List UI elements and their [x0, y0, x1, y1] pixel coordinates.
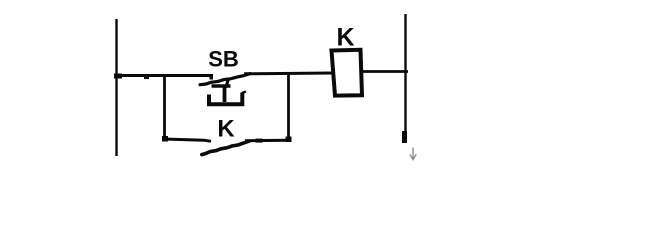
contact K movable (slant): [202, 141, 249, 154]
coil K rectangle: [332, 50, 363, 96]
node: junction blob at left rail: [114, 74, 122, 79]
node: branch bottom-right corner blob: [286, 137, 292, 143]
wire: left power rail: [115, 19, 117, 156]
wire: coil to right rail: [361, 70, 408, 73]
arrow: small gray down-arrow: [410, 148, 416, 160]
svg-text:K: K: [336, 24, 354, 52]
pushbutton SB actuator stem upper: [226, 80, 228, 88]
node: branch bottom-left corner blob: [162, 136, 168, 142]
node: ink tick under main line: [144, 75, 149, 79]
node: ink blob on branch bottom right wire: [256, 139, 263, 143]
pushbutton SB button cap bar: [212, 84, 231, 88]
pushbutton SB cup right-wall serif: [242, 92, 246, 94]
pushbutton SB actuator stem lower: [223, 87, 227, 102]
wire: right rail thick bottom end: [402, 131, 407, 143]
wire: right power rail: [404, 14, 406, 142]
wire: branch right vertical: [287, 74, 290, 140]
node: SB fixed terminal tick: [210, 74, 214, 80]
wire: main line left segment (rail to SB): [114, 74, 212, 77]
svg-text:SB: SB: [208, 47, 239, 72]
wire: main line middle segment (SB to coil): [244, 72, 333, 76]
wire: branch bottom right segment: [245, 139, 289, 143]
wire: branch left vertical: [163, 75, 166, 141]
wire: branch bottom left segment: [163, 139, 211, 141]
svg-text:K: K: [217, 116, 235, 143]
pushbutton SB movable contact (slant): [200, 74, 250, 85]
pushbutton SB cup (momentary operator): [209, 93, 242, 105]
